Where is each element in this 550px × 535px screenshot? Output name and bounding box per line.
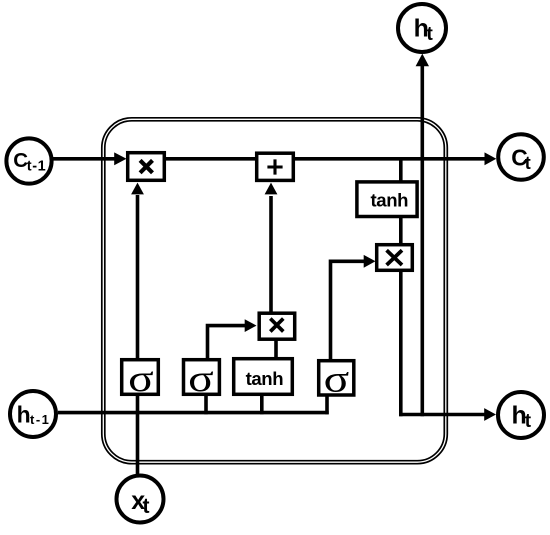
svg-text:t: t: [143, 495, 150, 518]
svg-text:t: t: [525, 153, 531, 173]
svg-text:t: t: [525, 411, 532, 432]
svg-text:tanh: tanh: [370, 189, 408, 210]
svg-text:t-1: t-1: [27, 159, 47, 175]
svg-text:σ: σ: [128, 358, 154, 400]
svg-text:t: t: [427, 24, 434, 45]
svg-text:h: h: [17, 401, 31, 427]
svg-text:σ: σ: [324, 359, 350, 401]
svg-text:tanh: tanh: [246, 368, 284, 389]
svg-text:t-1: t-1: [30, 412, 50, 427]
svg-text:σ: σ: [188, 358, 214, 400]
